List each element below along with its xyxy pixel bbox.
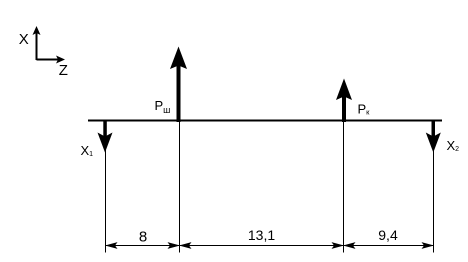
svg-text:8: 8 bbox=[139, 228, 147, 245]
axis Z (horizontal arrow) bbox=[37, 56, 66, 64]
svg-text:X: X bbox=[19, 31, 29, 48]
dimension line bbox=[106, 245, 434, 247]
svg-text:9,4: 9,4 bbox=[378, 227, 398, 243]
svg-text:13,1: 13,1 bbox=[248, 227, 275, 243]
force P_sh (large up arrow) bbox=[170, 47, 187, 123]
force X2 (down arrow, right) bbox=[426, 120, 441, 153]
dim arrows at P_sh extension bbox=[168, 242, 181, 249]
dim arrow left at X1 (points left) bbox=[105, 242, 118, 249]
beam (horizontal bar) bbox=[88, 120, 442, 122]
svg-text:Z: Z bbox=[59, 62, 68, 79]
extension line at P_sh bbox=[179, 122, 181, 253]
extension line at X2 bbox=[433, 150, 435, 253]
extension line at P_k bbox=[343, 122, 345, 253]
dim arrows at P_k extension bbox=[332, 242, 345, 249]
axis X (vertical arrow) bbox=[33, 26, 41, 60]
dim arrow right at X2 (points right) bbox=[422, 242, 435, 249]
force P_k (up arrow) bbox=[336, 79, 352, 123]
extension line at X1 bbox=[105, 150, 107, 253]
force X1 (down arrow, left) bbox=[98, 120, 113, 153]
